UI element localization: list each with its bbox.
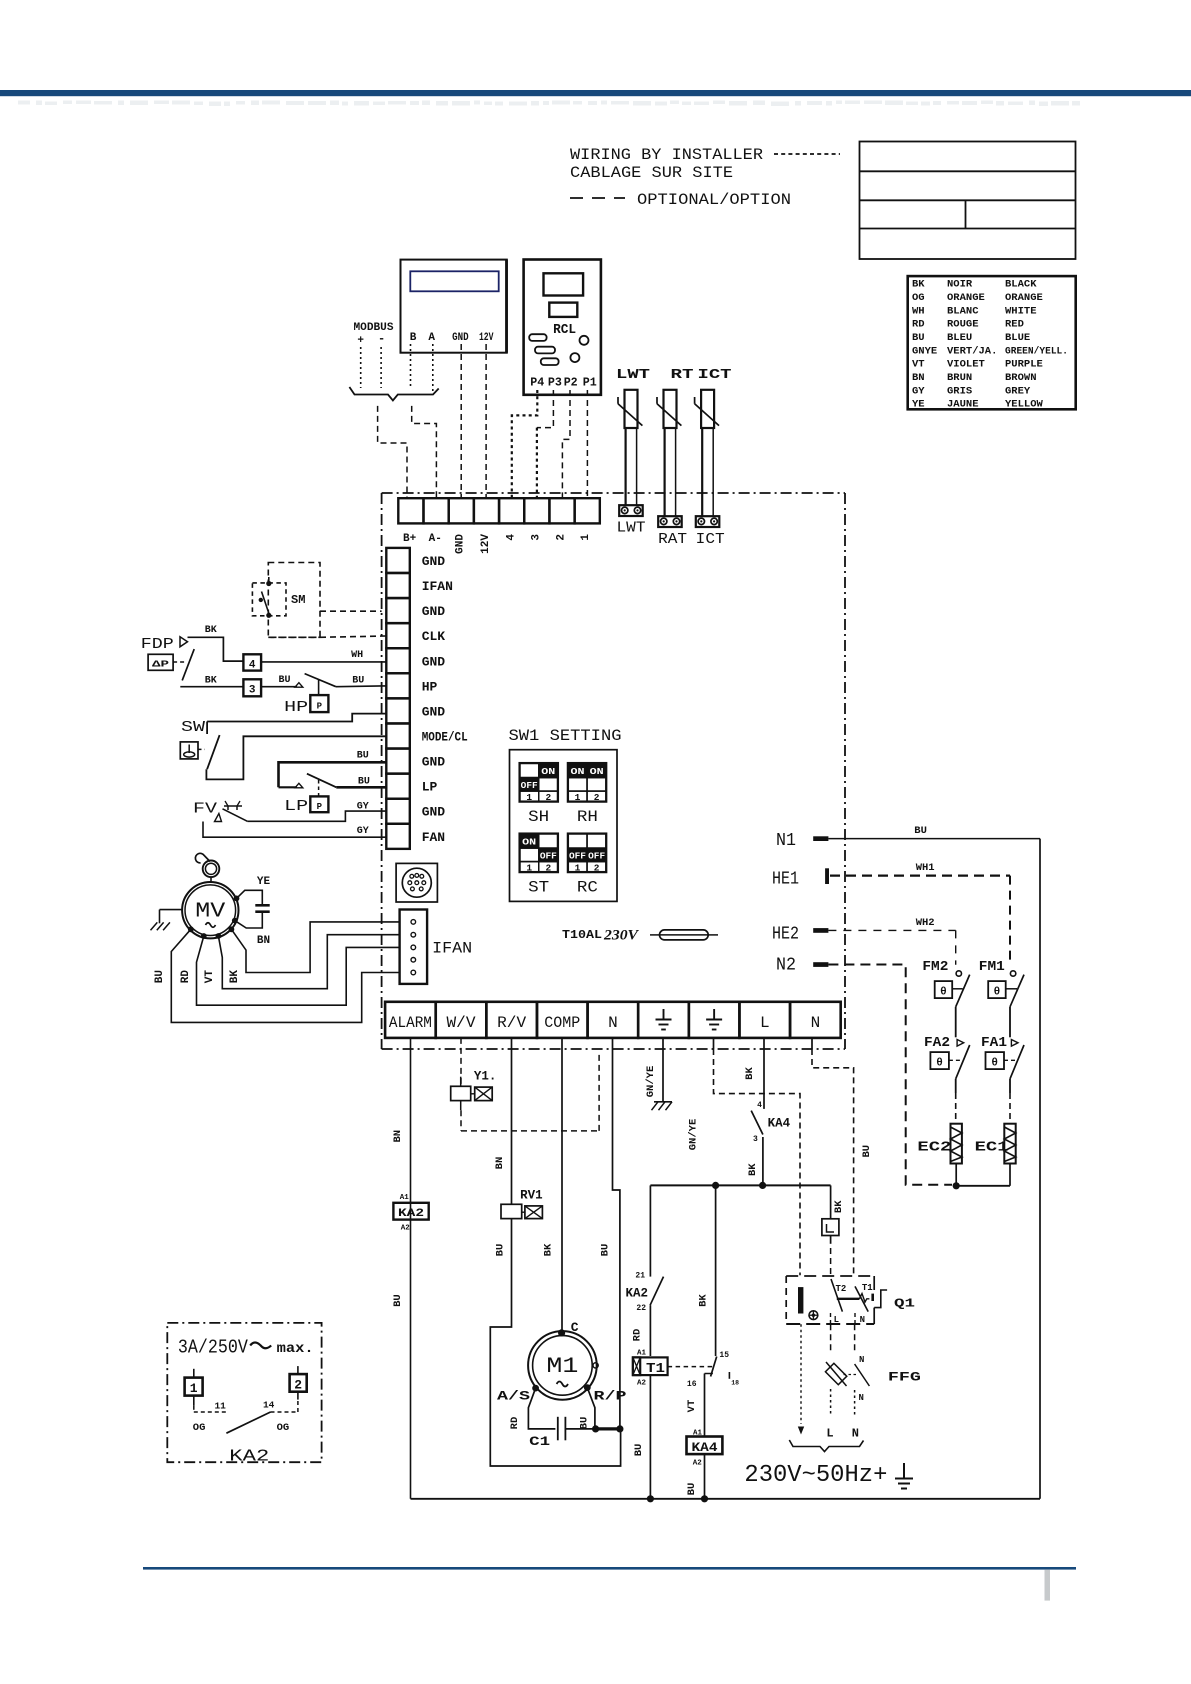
svg-text:FM2: FM2 xyxy=(922,959,948,975)
svg-text:BU: BU xyxy=(686,1483,698,1496)
svg-text:P: P xyxy=(317,802,323,812)
svg-text:FAN: FAN xyxy=(422,830,445,845)
svg-text:N: N xyxy=(859,1393,864,1403)
svg-text:IFAN: IFAN xyxy=(422,579,453,594)
svg-text:A-: A- xyxy=(429,533,442,545)
svg-text:L: L xyxy=(760,1014,770,1032)
svg-text:A: A xyxy=(428,332,435,344)
svg-text:BK: BK xyxy=(229,970,241,984)
svg-text:BLUE: BLUE xyxy=(1005,332,1030,344)
svg-text:GREEN/YELL.: GREEN/YELL. xyxy=(1005,345,1068,357)
svg-text:OG: OG xyxy=(277,1422,290,1434)
svg-text:N: N xyxy=(860,1315,865,1325)
svg-text:GRIS: GRIS xyxy=(947,385,972,397)
svg-text:4: 4 xyxy=(249,660,256,672)
svg-text:LWT: LWT xyxy=(617,520,646,537)
svg-text:RD: RD xyxy=(632,1329,644,1342)
svg-text:KA4: KA4 xyxy=(692,1441,719,1455)
svg-text:Q1: Q1 xyxy=(894,1298,915,1311)
svg-text:LWT: LWT xyxy=(616,367,650,383)
svg-text:GY: GY xyxy=(357,801,369,812)
svg-text:FM1: FM1 xyxy=(979,959,1005,975)
svg-text:16: 16 xyxy=(687,1380,697,1389)
svg-text:BLEU: BLEU xyxy=(947,332,972,344)
svg-text:3A/250V: 3A/250V xyxy=(178,1337,248,1359)
svg-text:ROUGE: ROUGE xyxy=(947,319,979,331)
svg-text:VT: VT xyxy=(686,1400,698,1413)
svg-text:A2: A2 xyxy=(401,1225,411,1233)
svg-text:GY: GY xyxy=(357,826,369,837)
svg-text:YE: YE xyxy=(257,876,271,888)
svg-text:VT: VT xyxy=(204,970,216,984)
svg-text:2: 2 xyxy=(294,1378,302,1393)
svg-text:BK: BK xyxy=(205,625,217,636)
svg-text:GND: GND xyxy=(455,534,467,554)
svg-text:HE2: HE2 xyxy=(772,925,799,945)
svg-text:θ: θ xyxy=(994,987,1001,999)
svg-text:WHITE: WHITE xyxy=(1005,305,1037,317)
svg-text:GN/YE: GN/YE xyxy=(645,1066,657,1098)
svg-text:FA2: FA2 xyxy=(924,1035,950,1051)
svg-text:BN: BN xyxy=(392,1130,404,1143)
svg-text:GND: GND xyxy=(422,704,446,719)
svg-text:ORANGE: ORANGE xyxy=(947,292,985,304)
svg-text:FV: FV xyxy=(193,801,217,818)
svg-text:MODE/CL: MODE/CL xyxy=(422,730,468,745)
svg-text:T1: T1 xyxy=(862,1283,873,1293)
svg-text:4: 4 xyxy=(505,534,517,541)
svg-text:BK: BK xyxy=(543,1243,555,1256)
svg-text:ST: ST xyxy=(528,879,549,897)
svg-text:BU: BU xyxy=(579,1417,591,1430)
svg-text:W/V: W/V xyxy=(447,1014,476,1032)
svg-text:R/V: R/V xyxy=(497,1014,526,1032)
svg-text:GND: GND xyxy=(422,755,446,770)
svg-text:OFF: OFF xyxy=(540,851,557,862)
svg-text:GNYE: GNYE xyxy=(912,345,937,357)
svg-text:HP: HP xyxy=(284,699,308,716)
svg-text:P2: P2 xyxy=(564,376,578,390)
svg-text:BU: BU xyxy=(357,751,369,762)
svg-text:WH1: WH1 xyxy=(916,862,935,874)
svg-text:ON: ON xyxy=(541,766,555,777)
svg-text:N: N xyxy=(811,1014,821,1032)
svg-text:LP: LP xyxy=(422,780,438,795)
svg-text:SH: SH xyxy=(528,808,549,826)
svg-text:OFF: OFF xyxy=(569,851,586,862)
svg-text:BK: BK xyxy=(205,676,217,687)
svg-text:VT: VT xyxy=(912,359,925,371)
svg-text:ON: ON xyxy=(522,837,536,848)
svg-text:RED: RED xyxy=(1005,319,1024,331)
svg-text:BU: BU xyxy=(495,1244,507,1257)
svg-text:T10AL: T10AL xyxy=(562,929,602,942)
svg-text:HP: HP xyxy=(422,679,438,694)
svg-text:BU: BU xyxy=(633,1444,645,1457)
svg-text:P3: P3 xyxy=(548,376,562,390)
svg-text:BU: BU xyxy=(352,676,364,687)
svg-text:SM: SM xyxy=(291,593,305,607)
svg-text:BLACK: BLACK xyxy=(1005,279,1037,291)
svg-text:OFF: OFF xyxy=(588,851,605,862)
svg-text:LP: LP xyxy=(284,798,308,815)
svg-text:NOIR: NOIR xyxy=(947,279,973,291)
svg-text:N2: N2 xyxy=(776,956,796,976)
svg-text:N: N xyxy=(859,1355,864,1365)
svg-text:P4: P4 xyxy=(530,376,544,390)
svg-text:B: B xyxy=(410,332,417,344)
svg-text:KA2: KA2 xyxy=(625,1287,648,1301)
svg-text:L: L xyxy=(834,1315,839,1325)
svg-text:BK: BK xyxy=(833,1200,845,1213)
svg-text:θ: θ xyxy=(940,987,947,999)
svg-text:GN/YE: GN/YE xyxy=(688,1119,700,1151)
svg-text:12V: 12V xyxy=(479,332,494,344)
svg-text:GY: GY xyxy=(912,385,925,397)
svg-text:VERT/JA.: VERT/JA. xyxy=(947,345,997,357)
svg-text:A1: A1 xyxy=(400,1194,410,1202)
svg-text:RT: RT xyxy=(671,367,694,383)
svg-text:2: 2 xyxy=(555,534,567,541)
svg-text:21: 21 xyxy=(635,1272,645,1281)
svg-text:BK: BK xyxy=(747,1163,759,1176)
svg-text:3: 3 xyxy=(531,534,543,541)
svg-text:RAT: RAT xyxy=(658,531,687,548)
svg-text:BN: BN xyxy=(494,1157,506,1170)
svg-text:ON: ON xyxy=(570,766,584,777)
svg-text:BU: BU xyxy=(392,1294,404,1307)
svg-text:A2: A2 xyxy=(637,1380,647,1388)
svg-text:BU: BU xyxy=(914,825,927,837)
svg-text:SW: SW xyxy=(181,719,205,736)
svg-text:θ: θ xyxy=(991,1058,998,1070)
svg-text:ORANGE: ORANGE xyxy=(1005,292,1043,304)
svg-text:BU: BU xyxy=(279,675,291,686)
svg-text:BU: BU xyxy=(912,332,925,344)
svg-text:EC1: EC1 xyxy=(975,1140,1009,1156)
svg-text:MODBUS: MODBUS xyxy=(354,322,394,334)
svg-text:GND: GND xyxy=(422,654,446,669)
svg-text:RD: RD xyxy=(180,970,192,984)
svg-text:A2: A2 xyxy=(693,1460,703,1468)
svg-text:N: N xyxy=(608,1014,618,1032)
svg-text:230V: 230V xyxy=(603,928,640,944)
svg-text:BLANC: BLANC xyxy=(947,305,979,317)
svg-text:GND: GND xyxy=(422,554,446,569)
svg-text:BK: BK xyxy=(744,1067,756,1080)
svg-text:BK: BK xyxy=(698,1294,710,1307)
svg-text:GND: GND xyxy=(422,604,446,619)
svg-text:IFAN: IFAN xyxy=(432,940,472,958)
svg-text:KA2: KA2 xyxy=(398,1208,424,1220)
svg-text:4: 4 xyxy=(757,1101,762,1110)
svg-text:ALARM: ALARM xyxy=(389,1014,432,1032)
svg-text:22: 22 xyxy=(636,1304,646,1313)
svg-text:OPTIONAL/OPTION: OPTIONAL/OPTION xyxy=(637,191,791,209)
svg-text:P1: P1 xyxy=(583,376,597,390)
svg-text:L: L xyxy=(826,1427,833,1441)
svg-text:Y1.: Y1. xyxy=(474,1070,497,1084)
svg-text:T1: T1 xyxy=(646,1361,665,1377)
svg-text:OG: OG xyxy=(912,292,925,304)
svg-text:MV: MV xyxy=(195,901,225,924)
svg-text:RD: RD xyxy=(509,1417,521,1430)
svg-text:EC2: EC2 xyxy=(917,1140,951,1156)
svg-text:BU: BU xyxy=(861,1145,873,1158)
svg-text:GND: GND xyxy=(422,805,446,820)
svg-text:PURPLE: PURPLE xyxy=(1005,359,1043,371)
svg-text:12V: 12V xyxy=(480,534,492,554)
svg-text:M1: M1 xyxy=(546,1354,578,1379)
svg-text:18: 18 xyxy=(731,1380,739,1387)
svg-text:BK: BK xyxy=(912,279,925,291)
svg-text:ON: ON xyxy=(590,766,604,777)
svg-text:ICT: ICT xyxy=(696,531,725,548)
svg-text:BU: BU xyxy=(358,776,370,787)
svg-text:YE: YE xyxy=(912,399,925,411)
svg-text:GREY: GREY xyxy=(1005,385,1031,397)
svg-text:GND: GND xyxy=(452,332,469,344)
svg-text:BRUN: BRUN xyxy=(947,372,972,384)
svg-text:1: 1 xyxy=(190,1381,198,1396)
svg-text:N: N xyxy=(852,1427,859,1441)
svg-text:BN: BN xyxy=(912,372,925,384)
svg-text:RH: RH xyxy=(577,808,598,826)
svg-text:ICT: ICT xyxy=(698,367,732,383)
svg-text:BU: BU xyxy=(600,1244,612,1257)
svg-text:+: + xyxy=(357,335,364,347)
svg-text:B+: B+ xyxy=(403,533,417,545)
svg-text:RV1: RV1 xyxy=(520,1189,543,1203)
svg-text:C1: C1 xyxy=(529,1435,550,1449)
svg-text:CABLAGE SUR SITE: CABLAGE SUR SITE xyxy=(570,164,733,182)
svg-text:11: 11 xyxy=(214,1401,226,1412)
svg-text:θ: θ xyxy=(936,1058,943,1070)
svg-text:3: 3 xyxy=(753,1135,758,1144)
svg-text:COMP: COMP xyxy=(544,1014,580,1032)
svg-text:A/S: A/S xyxy=(497,1389,530,1404)
svg-text:KA4: KA4 xyxy=(768,1117,791,1131)
svg-text:ΔP: ΔP xyxy=(152,659,169,670)
svg-text:HE1: HE1 xyxy=(772,870,799,890)
svg-text:CLK: CLK xyxy=(422,629,446,644)
svg-text:FA1: FA1 xyxy=(981,1035,1007,1051)
svg-text:WH2: WH2 xyxy=(916,917,935,929)
svg-text:T2: T2 xyxy=(836,1284,847,1294)
svg-text:FFG: FFG xyxy=(888,1370,921,1385)
svg-text:SW1 SETTING: SW1 SETTING xyxy=(509,727,622,745)
svg-text:-: - xyxy=(378,332,385,346)
svg-text:YELLOW: YELLOW xyxy=(1005,399,1044,411)
svg-text:RCL: RCL xyxy=(553,323,576,338)
svg-text:JAUNE: JAUNE xyxy=(947,399,979,411)
svg-text:15: 15 xyxy=(719,1351,729,1360)
svg-text:N1: N1 xyxy=(776,831,796,851)
svg-text:1: 1 xyxy=(580,534,592,541)
svg-text:WH: WH xyxy=(912,305,925,317)
svg-text:WH: WH xyxy=(351,650,363,661)
svg-text:KA2: KA2 xyxy=(229,1447,269,1466)
svg-text:BU: BU xyxy=(154,970,166,983)
svg-text:BN: BN xyxy=(257,935,270,947)
svg-text:RC: RC xyxy=(577,879,598,897)
svg-text:FDP: FDP xyxy=(141,636,174,653)
svg-text:BROWN: BROWN xyxy=(1005,372,1037,384)
svg-text:230V~50Hz+: 230V~50Hz+ xyxy=(744,1462,887,1489)
svg-text:WIRING BY INSTALLER: WIRING BY INSTALLER xyxy=(570,146,763,164)
svg-text:P: P xyxy=(317,702,323,712)
svg-text:OFF: OFF xyxy=(521,780,538,791)
svg-text:R/P: R/P xyxy=(594,1389,627,1404)
svg-text:max.: max. xyxy=(277,1341,314,1357)
svg-text:3: 3 xyxy=(249,685,256,697)
svg-text:RD: RD xyxy=(912,319,925,331)
svg-text:14: 14 xyxy=(263,1400,275,1411)
svg-text:OG: OG xyxy=(193,1422,206,1434)
svg-text:VIOLET: VIOLET xyxy=(947,359,985,371)
